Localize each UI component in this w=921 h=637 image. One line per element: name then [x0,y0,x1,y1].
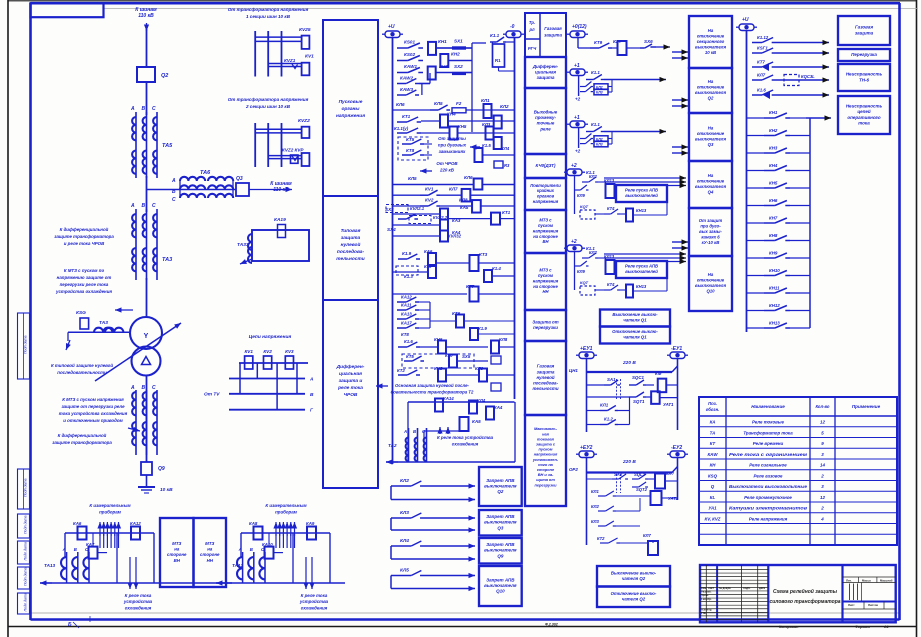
svg-text:КА5: КА5 [460,205,469,210]
svg-text:КЛ7: КЛ7 [449,187,458,192]
svg-text:КТ7: КТ7 [466,284,475,289]
svg-text:R3: R3 [504,163,510,168]
svg-text:К шинам: К шинам [135,7,157,13]
svg-text:МТЗ: МТЗ [205,541,214,546]
svg-text:КН8: КН8 [769,233,778,238]
svg-text:КЛ3: КЛ3 [400,510,409,516]
svg-text:В: В [142,106,146,112]
svg-text:КН10: КН10 [769,268,780,273]
svg-text:Тр.: Тр. [529,20,535,25]
svg-text:КТ4: КТ4 [607,206,615,211]
svg-text:Q2: Q2 [161,73,168,79]
svg-text:силового трансформатора: силового трансформатора [769,598,840,605]
svg-text:КН3: КН3 [439,64,448,69]
svg-text:Выключение выклю-: Выключение выклю- [612,312,658,317]
svg-text:КА: КА [710,420,716,425]
svg-text:На: На [708,28,714,33]
svg-text:Подп.дата: Подп.дата [24,478,28,497]
svg-text:В: В [250,547,253,552]
svg-text:при дуго-: при дуго- [700,223,721,228]
svg-text:Q3: Q3 [236,176,243,182]
svg-text:приборам: приборам [275,510,298,515]
svg-text:Перегрузка: Перегрузка [851,52,877,57]
svg-text:К МТЗ с пуском по: К МТЗ с пуском по [64,268,105,273]
svg-text:выключателей: выключателей [625,193,658,198]
svg-text:+1: +1 [574,115,580,121]
svg-text:От трансформатора напряжения: От трансформатора напряжения [228,96,309,102]
svg-text:10 кВ: 10 кВ [705,50,716,55]
svg-text:КЛ3: КЛ3 [596,143,603,147]
svg-text:КА8: КА8 [249,521,258,526]
svg-text:2: 2 [820,473,824,478]
svg-text:КТ8: КТ8 [406,148,415,153]
svg-text:довательности трансформатора Т: довательности трансформатора Т2 [391,390,474,395]
svg-text:КТ2: КТ2 [597,536,605,541]
svg-text:Дифферен-: Дифферен- [336,363,365,370]
svg-text:SА1: SА1 [607,377,616,382]
svg-text:КН7: КН7 [445,353,454,358]
svg-text:КАW2: КАW2 [400,76,413,81]
svg-text:охлаждения: охлаждения [452,442,479,447]
svg-text:рл: рл [528,27,535,32]
svg-text:КЛ3: КЛ3 [482,122,491,127]
svg-text:КЛ1: КЛ1 [481,98,490,103]
svg-text:чателя Q2: чателя Q2 [622,576,646,581]
svg-text:КL: КL [710,495,716,500]
svg-text:F2: F2 [456,101,462,106]
svg-text:ТА: ТА [710,430,716,435]
svg-text:Реле пуска АПВ: Реле пуска АПВ [625,188,658,193]
svg-text:КSГ1: КSГ1 [757,46,768,51]
svg-text:Подп.дата: Подп.дата [24,335,28,354]
svg-text:КЛ1: КЛ1 [591,489,599,494]
svg-text:КТ: КТ [710,441,716,446]
svg-text:SQС1: SQС1 [632,375,645,380]
svg-text:КАW1: КАW1 [404,64,417,69]
svg-text:А: А [238,547,242,552]
svg-text:КЛ9: КЛ9 [577,269,585,274]
svg-text:нулевой: нулевой [536,375,554,380]
svg-text:ВН: ВН [174,558,181,563]
svg-text:КАW3: КАW3 [400,87,413,92]
svg-text:КТ5: КТ5 [406,137,415,142]
svg-text:КА13: КА13 [401,312,412,317]
svg-text:замыканиях: замыканиях [439,149,466,154]
svg-text:обозн.: обозн. [706,407,720,412]
svg-text:SX6: SX6 [644,39,653,44]
svg-text:Газовая: Газовая [544,26,562,31]
svg-text:циальная: циальная [535,69,556,74]
svg-text:12: 12 [820,420,825,425]
svg-text:КЛ2: КЛ2 [589,250,597,255]
svg-text:КА5: КА5 [472,419,481,424]
svg-text:КН11: КН11 [769,286,780,291]
svg-text:К1.1: К1.1 [591,70,600,75]
svg-text:С: С [152,106,156,112]
svg-text:Дата: Дата [759,586,766,590]
svg-text:органы: органы [341,107,360,112]
svg-text:В: В [172,189,176,195]
svg-text:Б: Б [68,622,72,628]
svg-text:А: А [171,178,176,184]
svg-text:+2: +2 [571,163,577,169]
svg-text:защита: защита [855,30,874,35]
svg-text:Q9: Q9 [158,466,165,472]
svg-text:последова-: последова- [337,249,365,255]
svg-text:К реле тока: К реле тока [301,593,328,598]
svg-text:С: С [152,203,156,209]
svg-text:-ЕУ1: -ЕУ1 [671,346,682,352]
svg-text:КV, КVZ: КV, КVZ [705,516,721,521]
svg-text:Повторители: Повторители [530,183,561,188]
svg-text:защита: защита [341,236,361,241]
svg-text:Неисправность: Неисправность [846,72,883,77]
svg-text:пуском: пуском [538,273,554,278]
svg-text:К МТЗ с пуском напряжения: К МТЗ с пуском напряжения [62,397,124,402]
svg-text:К измерительным: К измерительным [89,503,131,508]
svg-text:каниях 6: каниях 6 [701,234,720,239]
svg-text:КН6: КН6 [434,337,443,342]
svg-text:перегрузки реле тока: перегрузки реле тока [60,282,109,287]
svg-text:нулевой: нулевой [341,241,361,248]
svg-text:А: А [62,547,66,552]
svg-text:КЛ7: КЛ7 [613,39,622,44]
svg-text:Подп.дата: Подп.дата [24,542,28,561]
svg-text:Трансформатор тока: Трансформатор тока [743,430,793,435]
svg-text:Поз.: Поз. [708,401,717,406]
svg-text:ТА13: ТА13 [44,563,56,568]
svg-text:РГЧ: РГЧ [528,46,537,51]
svg-text:КЛ5: КЛ5 [434,101,443,106]
svg-text:циальная: циальная [339,372,362,377]
svg-text:Газовая: Газовая [537,364,555,369]
svg-text:Q2: Q2 [497,489,504,494]
svg-text:КН9: КН9 [769,251,778,256]
svg-text:КТ9: КТ9 [594,40,603,45]
svg-text:SQL2: SQL2 [634,472,646,477]
svg-text:Реле газовое: Реле газовое [754,473,784,478]
svg-text:К1.1(у): К1.1(у) [394,126,409,131]
svg-text:перегрузки: перегрузки [535,482,558,487]
svg-text:КV3: КV3 [285,349,294,354]
svg-text:КЛ1: КЛ1 [600,403,609,408]
svg-text:ВН: ВН [542,239,549,244]
svg-text:Формат: Формат [855,625,871,629]
svg-text:кУ-10 кВ: кУ-10 кВ [702,240,720,245]
svg-text:Листов: Листов [868,603,878,607]
svg-text:К1.6: К1.6 [404,339,413,344]
svg-text:К1.4: К1.4 [492,266,501,271]
svg-text:Т.контр.: Т.контр. [701,597,712,601]
svg-text:выключателя: выключателя [695,44,726,49]
svg-text:КЛ3: КЛ3 [596,91,603,95]
svg-text:1 секции шин 10 кВ: 1 секции шин 10 кВ [246,14,291,19]
svg-text:КЛ4: КЛ4 [477,398,486,403]
svg-text:чателя Q1: чателя Q1 [623,318,647,323]
svg-text:КЛ2: КЛ2 [591,504,599,509]
svg-text:КЛ4: КЛ4 [400,538,409,544]
svg-text:отключение: отключение [697,131,725,136]
svg-text:КSG: КSG [76,310,86,316]
svg-text:КН6: КН6 [769,198,778,203]
svg-text:защите трансформатора: защите трансформатора [52,440,112,445]
svg-text:Лит.: Лит. [846,578,852,582]
svg-text:+2: +2 [575,149,581,154]
svg-text:От трансформатора напряжения: От трансформатора напряжения [228,6,309,12]
svg-text:КН5: КН5 [458,124,467,129]
svg-text:14: 14 [820,463,825,468]
svg-text:КТ8: КТ8 [401,332,409,337]
svg-text:КН13: КН13 [636,284,647,289]
svg-text:УАТ1: УАТ1 [663,402,674,407]
svg-text:Защита от: Защита от [532,320,558,325]
svg-text:на: на [207,547,213,552]
svg-text:КН1: КН1 [769,110,778,115]
svg-text:КV25: КV25 [299,27,311,33]
svg-text:12: 12 [820,495,825,500]
svg-text:последова-: последова- [533,381,558,386]
svg-text:КА12: КА12 [130,521,141,526]
svg-text:МТЗ: МТЗ [172,541,181,546]
svg-text:выключателя: выключателя [695,137,726,142]
svg-text:ТН-6: ТН-6 [859,77,869,82]
svg-text:МТЗ с: МТЗ с [539,268,552,273]
svg-text:КН5: КН5 [434,366,443,371]
svg-text:Газовая: Газовая [855,25,873,30]
svg-text:КЛ5: КЛ5 [408,176,417,181]
svg-text:защита: защита [544,33,562,38]
svg-text:ТА3: ТА3 [162,257,172,263]
svg-text:Применение: Применение [852,404,881,409]
svg-text:КТ1: КТ1 [502,210,511,215]
svg-text:КА17: КА17 [401,321,412,326]
svg-text:№ докум.: № докум. [719,587,731,590]
svg-text:пуском: пуском [538,223,554,228]
svg-text:КТ1: КТ1 [402,114,411,119]
svg-text:К1.9: К1.9 [402,251,412,256]
svg-text:К1.3: К1.3 [404,274,413,279]
svg-text:КТ7: КТ7 [757,60,765,65]
svg-text:Цепи напряжения: Цепи напряжения [249,334,292,340]
svg-text:В: В [310,392,314,398]
svg-text:КV1: КV1 [305,54,314,60]
svg-text:К шинам: К шинам [270,181,292,187]
svg-text:на: на [174,547,180,552]
svg-text:Схема релейной защиты: Схема релейной защиты [773,588,838,595]
svg-text:КА4: КА4 [494,405,503,410]
svg-text:В: В [74,547,77,552]
svg-text:Основная защита нулевой после-: Основная защита нулевой после- [395,383,469,388]
svg-text:А: А [130,385,135,391]
svg-text:Отключение выклю-: Отключение выклю- [611,591,657,596]
svg-text:КЛ4: КЛ4 [501,146,510,151]
svg-text:НН: НН [542,289,549,294]
svg-text:Q3: Q3 [497,525,504,530]
svg-text:КЛ2: КЛ2 [589,174,597,179]
svg-text:КА19: КА19 [274,217,286,223]
svg-text:Наименование: Наименование [751,404,785,409]
svg-text:тельности: тельности [532,386,558,391]
svg-text:устройства: устройства [123,599,153,604]
svg-text:SQТ2: SQТ2 [636,487,648,492]
svg-text:К реле тока устройства: К реле тока устройства [437,435,494,440]
svg-text:R1: R1 [495,58,501,63]
svg-text:Реле сигнальное: Реле сигнальное [749,463,787,468]
svg-text:В: В [142,203,146,209]
svg-text:Реле тока с ограничением: Реле тока с ограничением [729,452,808,457]
svg-text:А1: А1 [883,625,889,629]
svg-text:отключение: отключение [697,85,725,90]
svg-text:Реле токовые: Реле токовые [752,420,785,425]
svg-text:секционного: секционного [697,39,725,44]
svg-text:напряжению защите от: напряжению защите от [57,275,112,280]
svg-text:К1.6: К1.6 [757,88,766,93]
svg-text:С: С [172,197,176,203]
svg-text:Запрет АПВ: Запрет АПВ [486,577,515,582]
svg-text:КТ4: КТ4 [607,282,615,287]
svg-text:УА1: УА1 [708,506,717,511]
svg-text:выключателя: выключателя [695,90,726,95]
svg-text:К1.9: К1.9 [478,326,487,331]
svg-text:К1.1: К1.1 [591,122,600,127]
svg-text:КS02: КS02 [404,52,415,57]
svg-text:КТ5: КТ5 [406,354,414,359]
svg-text:КМ: КМ [655,371,662,376]
svg-text:SХ4: SХ4 [387,227,396,232]
svg-text:А: А [130,106,135,112]
svg-text:ОР2: ОР2 [569,467,578,472]
svg-text:А: А [130,203,135,209]
svg-text:Реле времени: Реле времени [753,441,784,446]
svg-text:КVZ1: КVZ1 [284,58,296,63]
svg-text:вых замы-: вых замы- [699,229,722,234]
svg-text:НН: НН [207,558,214,563]
svg-text:110 кВ: 110 кВ [138,13,154,19]
svg-text:Запрет АПВ: Запрет АПВ [486,478,515,483]
svg-text:отключение: отключение [697,278,725,283]
svg-text:КS01: КS01 [404,40,415,45]
svg-text:К типовой защите нулевой: К типовой защите нулевой [51,363,113,368]
svg-text:и отключенным приводом: и отключенным приводом [63,418,123,423]
svg-text:стороне: стороне [167,552,187,557]
svg-text:+U: +U [388,24,395,30]
svg-text:КV2: КV2 [425,198,434,203]
svg-text:220 кВ: 220 кВ [439,167,455,172]
svg-text:ЦН1: ЦН1 [569,368,578,373]
svg-text:SХ2: SХ2 [454,64,463,69]
svg-text:выключателей: выключателей [625,269,658,274]
svg-text:Ф.2.302: Ф.2.302 [545,622,558,626]
svg-text:КЛ5: КЛ5 [400,568,409,574]
svg-text:КVЛ32: КVЛ32 [448,234,462,239]
svg-text:при дуговых: при дуговых [438,142,467,147]
svg-text:ТА12: ТА12 [232,563,244,568]
svg-text:Y: Y [144,333,149,340]
svg-text:SX1: SX1 [454,39,463,44]
svg-text:-ЕУ2: -ЕУ2 [671,445,682,451]
svg-text:КЛ7: КЛ7 [757,73,766,78]
svg-text:выключателя: выключателя [695,283,726,288]
svg-text:оперативного: оперативного [847,115,880,120]
svg-text:чателя Q1: чателя Q1 [623,335,647,340]
svg-text:КА14: КА14 [443,396,454,401]
svg-text:КV1: КV1 [244,349,253,354]
svg-text:напряжения: напряжения [533,228,559,233]
svg-text:Копировал: Копировал [779,625,799,629]
svg-text:КН: КН [710,463,717,468]
svg-text:защита: защита [537,369,555,374]
svg-text:напряжения: напряжения [336,114,365,119]
svg-text:Подп.дата: Подп.дата [24,515,28,534]
svg-text:Утв.: Утв. [701,611,707,615]
svg-text:КЛ8: КЛ8 [499,337,508,342]
svg-text:Выключатели высоковольтные: Выключатели высоковольтные [729,484,808,489]
svg-text:цепей: цепей [857,108,870,114]
svg-text:реле: реле [539,126,551,131]
svg-text:КSQ: КSQ [708,473,718,478]
svg-text:220 В: 220 В [622,459,636,465]
svg-text:тока устройства охлаждения: тока устройства охлаждения [59,411,128,416]
svg-text:Типовая: Типовая [341,228,361,234]
svg-text:защита: защита [537,75,555,80]
svg-text:охлаждения: охлаждения [301,605,328,610]
svg-text:приборам: приборам [99,510,122,515]
svg-text:крайних: крайних [537,188,555,193]
svg-text:SА2: SА2 [614,472,623,477]
svg-text:стороне: стороне [200,552,220,557]
svg-text:КQТ: КQТ [580,280,589,285]
svg-text:Подп.: Подп. [743,586,751,590]
svg-text:выключателя: выключателя [484,583,517,588]
svg-text:А: А [403,429,407,434]
svg-text:КН2: КН2 [769,128,778,133]
svg-text:органов: органов [537,194,555,199]
svg-text:+ЕУ2: +ЕУ2 [580,445,593,451]
svg-text:охлаждения: охлаждения [125,605,152,610]
svg-text:SQТ1: SQТ1 [633,399,645,404]
svg-text:К1.1: К1.1 [490,33,500,38]
svg-text:защита и: защита и [339,379,363,384]
svg-text:Масштаб: Масштаб [880,578,893,582]
svg-text:Лист: Лист [708,586,715,590]
svg-text:Пусковые: Пусковые [339,99,363,105]
svg-text:чателя Q2: чателя Q2 [622,596,646,601]
svg-text:Q: Q [711,484,715,489]
svg-text:ЧРОВ: ЧРОВ [344,392,358,398]
svg-text:Кол-во: Кол-во [816,404,830,409]
svg-text:220 В: 220 В [622,360,636,366]
svg-text:-0: -0 [510,24,515,30]
svg-text:На: На [708,126,714,131]
svg-text:КН7: КН7 [769,216,778,221]
svg-text:КV2: КV2 [263,349,272,354]
svg-text:КН4: КН4 [447,112,456,117]
svg-text:устройства: устройства [299,599,329,604]
svg-text:выключателя: выключателя [484,548,517,553]
svg-text:К реле тока: К реле тока [125,593,152,598]
svg-text:К1.12: К1.12 [757,35,769,40]
svg-text:КА12: КА12 [401,295,412,300]
svg-text:КН5: КН5 [769,181,778,186]
svg-text:ТА2: ТА2 [388,443,397,448]
svg-text:Запрет АПВ: Запрет АПВ [486,514,515,519]
svg-text:Лист: Лист [848,603,855,607]
svg-text:КVZ2 КVР: КVZ2 КVР [282,148,304,153]
svg-text:2 секции шин 10 кВ: 2 секции шин 10 кВ [245,104,291,109]
svg-text:КА9: КА9 [306,521,315,526]
svg-text:КА6: КА6 [424,249,433,254]
svg-text:КVZ2: КVZ2 [298,118,310,124]
